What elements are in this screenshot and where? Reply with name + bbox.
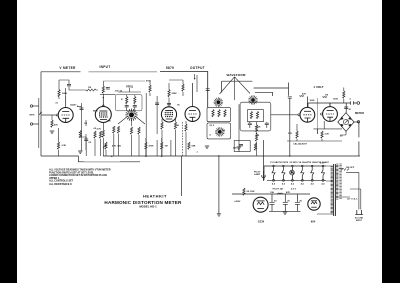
vertical wire x146: [145, 93, 147, 156]
svg-text:.1: .1: [196, 152, 199, 154]
power bus wire: [232, 193, 310, 195]
svg-text:68K: 68K: [192, 146, 196, 148]
svg-text:R: R: [121, 99, 123, 101]
junction dot bus d: [218, 155, 219, 156]
svg-text:50K: 50K: [256, 135, 260, 137]
svg-text:1M: 1M: [84, 123, 87, 125]
S4 fan wires: [118, 117, 145, 126]
svg-text:METER: METER: [355, 111, 364, 115]
svg-text:ON-OFF: ON-OFF: [346, 167, 355, 169]
dashed vertical x182.7: [182, 122, 184, 156]
switch box 3 outer: [240, 102, 271, 131]
wire V1 grid: [42, 114, 57, 116]
wire bus res: [106, 138, 162, 156]
heater labels: [270, 161, 330, 164]
capacitor C-coupling: [288, 97, 292, 98]
svg-text:1M: 1M: [165, 146, 168, 148]
bus step right tail: [84, 161, 120, 163]
resistors under S4 d: [138, 127, 140, 134]
resistor bus 4: [188, 142, 190, 149]
resistor bus 1: [105, 142, 107, 149]
svg-text:4-5: 4-5: [291, 183, 295, 186]
svg-text:OUTPUT: OUTPUT: [190, 66, 205, 70]
wien RC pair 2 resistor: [134, 97, 136, 104]
wire cath V5 V6: [287, 124, 342, 141]
cap feedback: [80, 108, 84, 109]
vertical wire x197: [196, 75, 198, 92]
wire V3 cath: [161, 119, 163, 156]
wire meter series resistor: [343, 88, 345, 104]
meter terminal 2: [357, 121, 359, 123]
wire attenuator chain: [250, 122, 267, 156]
cap bridge top: [344, 107, 348, 108]
svg-text:5879: 5879: [166, 66, 174, 70]
filter choke: [277, 193, 282, 194]
svg-text:INPUT: INPUT: [30, 115, 36, 117]
svg-text:WAVEFORM: WAVEFORM: [226, 73, 245, 77]
grid resistor V6: [323, 96, 327, 99]
pilot lamp symbol left: [262, 171, 266, 180]
meter movement circle: [343, 119, 348, 124]
svg-text:4-5: 4-5: [301, 183, 305, 186]
svg-text:S2: S2: [223, 130, 226, 132]
svg-text:PILOT #47: PILOT #47: [273, 187, 284, 190]
svg-text:1K: 1K: [177, 105, 180, 107]
tube V4 12AU7: [185, 83, 200, 122]
attenuator chain below 2: [255, 134, 257, 141]
cap at x157: [155, 103, 159, 104]
rotary switch S4 frequency: [125, 109, 137, 121]
transformer left winding: [331, 167, 333, 214]
wire switch lower: [255, 92, 273, 96]
wire V2 cath: [102, 138, 104, 156]
ground feedback: [78, 151, 82, 153]
power ground rail: [269, 210, 301, 212]
svg-text:INPUT: INPUT: [356, 220, 363, 222]
wien RC pair 1 cap: [125, 106, 129, 107]
cathode resistor V1b: [57, 142, 59, 149]
plate resistor V2: [102, 86, 104, 93]
wire waveform fan: [220, 77, 251, 100]
meter series resistor: [343, 91, 345, 98]
cathode resistor V1a: [51, 120, 53, 127]
pilot lamp cross: [290, 171, 293, 174]
wire waveform bus: [222, 81, 253, 92]
resistor bus 2: [145, 142, 147, 149]
resistor feedback 2: [94, 131, 96, 138]
heater rail bottom: [267, 179, 326, 181]
svg-text:5879: 5879: [93, 111, 98, 113]
main bottom bus: [41, 155, 360, 157]
plate resistor V4: [182, 84, 184, 91]
heater tap circles: [273, 165, 324, 167]
ground switch area: [205, 146, 209, 148]
grid terminal V1: [56, 114, 58, 116]
tube V6 12AU7: [323, 103, 338, 121]
wire feedback cluster: [86, 120, 101, 156]
svg-text:27K: 27K: [288, 133, 292, 135]
ground V1: [50, 131, 54, 133]
svg-text:V2 5879: V2 5879: [280, 162, 289, 164]
attenuator ladder a: [250, 111, 252, 118]
series cap on output drop: [206, 89, 210, 91]
cathode resistor V4: [185, 124, 187, 131]
wire V4 cath: [185, 121, 187, 156]
output terminal: [357, 102, 360, 105]
vertical wire x170.9: [170, 140, 172, 156]
AC vertical wires: [346, 172, 361, 209]
filter cap 3: [295, 194, 300, 211]
svg-text:600: 600: [233, 148, 237, 150]
svg-text:220K: 220K: [172, 93, 178, 95]
input attenuator pot: [39, 98, 42, 148]
tube V8 6X4: [308, 198, 320, 210]
vertical wire x157: [156, 96, 158, 156]
vertical wire x239: [238, 104, 240, 152]
transformer core: [334, 164, 336, 216]
grid resistor V5 horizontal: [300, 95, 304, 98]
svg-text:GZ34: GZ34: [258, 220, 265, 224]
svg-text:6.3 V: 6.3 V: [291, 188, 297, 190]
wire top output: [160, 72, 208, 108]
pot arrow bus: [103, 145, 106, 148]
switch box 1: [207, 107, 231, 121]
svg-text:220K: 220K: [62, 93, 68, 95]
heater rail left vert: [264, 166, 268, 180]
svg-text:4-5: 4-5: [311, 183, 315, 186]
dropping resistor power: [243, 188, 245, 195]
grid arrow V4: [194, 74, 195, 79]
input terminal 2: [30, 123, 32, 125]
heater pin circles: [272, 179, 324, 181]
svg-text:20: 20: [299, 201, 302, 203]
svg-text:12AX7: 12AX7: [70, 104, 77, 107]
V5 V6 bottom wire: [313, 121, 342, 134]
cathode resistor V3: [161, 122, 163, 129]
svg-text:470K: 470K: [149, 145, 154, 148]
svg-text:FREQ: FREQ: [126, 86, 133, 89]
feedback pot cluster: [77, 103, 82, 151]
wire V2 bottom: [102, 123, 104, 131]
section rule under INPUT: [89, 71, 158, 73]
resistors in box1 b: [218, 110, 220, 117]
junction dot bus a: [111, 156, 112, 157]
wire cap feedback 2: [80, 137, 86, 156]
cathode resistor V5: [296, 131, 298, 138]
switch box 2: [207, 123, 231, 139]
wire top feedback: [41, 72, 81, 156]
svg-text:20: 20: [274, 201, 277, 203]
resistors under S4 c: [130, 127, 132, 134]
pilot lamp: [290, 170, 295, 175]
junction dot bus e: [289, 155, 290, 156]
svg-text:ALL RESISTANCE K: ALL RESISTANCE K: [49, 183, 72, 186]
resistors in box1 a: [212, 110, 214, 117]
svg-text:20: 20: [349, 109, 352, 111]
svg-text:1K: 1K: [177, 125, 180, 127]
bridge diode blobs: [340, 117, 351, 128]
coupling cap V1-V2: [67, 85, 71, 86]
junction dot bus b: [145, 156, 146, 157]
wire under S4: [114, 134, 139, 156]
left black bar: [0, 0, 17, 283]
heater pin numbers: [272, 183, 325, 186]
wire bridge right down: [354, 122, 359, 156]
tube V7 rectifier GZ34: [253, 197, 268, 212]
cap below inner box left: [248, 123, 252, 124]
rotary switch S3: [248, 95, 258, 105]
svg-text:47K: 47K: [302, 93, 306, 96]
tube V2 5879: [95, 98, 111, 123]
svg-text:1M: 1M: [88, 87, 91, 89]
svg-text:10H: 10H: [270, 192, 274, 194]
grid RC V3: [149, 85, 151, 92]
cathode resistor V2: [102, 130, 104, 137]
tube V3 5879: [161, 104, 176, 123]
junction dots chain: [256, 133, 257, 134]
svg-text:10K: 10K: [107, 121, 111, 123]
screen cap V2: [106, 88, 110, 89]
wien bridge box: [115, 95, 142, 111]
fuse switch: [341, 169, 349, 171]
svg-text:.05: .05: [88, 142, 92, 144]
cap feedback 2: [84, 139, 88, 140]
wire grid RC V3: [149, 81, 151, 96]
heater filaments: [272, 167, 325, 180]
wire bridge bottom: [340, 131, 346, 135]
bracket label wien: [118, 88, 141, 92]
wire wien internals: [127, 95, 135, 111]
svg-text:47K .005: 47K .005: [112, 145, 122, 148]
svg-text:V METER: V METER: [59, 66, 76, 70]
wire cap to grid resistor: [69, 87, 86, 90]
resistors under S4 a: [113, 126, 115, 133]
power ground symbol: [283, 212, 287, 214]
svg-text:100K: 100K: [333, 99, 338, 101]
svg-text:.05 .5: .05 .5: [209, 125, 215, 127]
wire to bridge: [345, 103, 347, 113]
svg-text:50: 50: [340, 136, 343, 138]
svg-text:MODEL HD-1: MODEL HD-1: [139, 205, 157, 209]
wire V2 plate to wien box: [100, 93, 115, 95]
wire V3 plate: [168, 83, 170, 103]
AC plug: [355, 210, 363, 215]
B+ rule gray: [103, 80, 145, 82]
grid terminal V6: [321, 113, 323, 115]
svg-text:4-5: 4-5: [282, 183, 286, 186]
filter cap 2: [283, 194, 288, 211]
svg-text:.01: .01: [55, 103, 59, 105]
svg-text:20: 20: [287, 201, 290, 203]
transformer outer winding: [339, 164, 342, 199]
resistors under S4 b: [117, 126, 119, 133]
transformer right winding: [336, 164, 338, 199]
svg-text:.5: .5: [209, 135, 212, 137]
right black bar: [382, 0, 400, 283]
vertical wire between V5 V6: [316, 98, 318, 134]
vertical wire x263.5: [263, 140, 265, 181]
wire V1 plate top: [59, 80, 69, 99]
svg-text:V5 12AU7: V5 12AU7: [308, 161, 319, 164]
tube V1 12AX7: [58, 96, 73, 123]
cap in scope box: [239, 145, 243, 146]
wire V1 cathode: [52, 115, 59, 156]
svg-text:6X4: 6X4: [311, 220, 316, 224]
plate resistor V3: [168, 90, 170, 97]
input terminal 1: [30, 105, 32, 107]
wire terminal1: [33, 105, 39, 107]
transformer winding leads: [317, 166, 350, 214]
heater rail top: [268, 165, 327, 167]
svg-text:117 V. A.C.: 117 V. A.C.: [347, 198, 358, 201]
svg-text:4.7K: 4.7K: [97, 128, 102, 131]
meter needle: [345, 121, 348, 124]
wire cap down to bus: [289, 98, 291, 156]
grid resistor horizontal: [86, 89, 98, 91]
top cap V2: [102, 105, 104, 107]
top cap V3: [167, 103, 171, 104]
svg-text:.5: .5: [349, 99, 352, 101]
svg-text:4-5: 4-5: [321, 183, 325, 186]
resistor V3/V4 b: [174, 122, 176, 129]
svg-text:INPUT: INPUT: [99, 65, 110, 69]
long vertical below bus 2 with ground: [218, 156, 220, 214]
svg-text:100K: 100K: [310, 100, 315, 102]
junction dot V2 top: [103, 97, 104, 98]
svg-text:5K 10W: 5K 10W: [247, 191, 256, 193]
rotary switch S2: [215, 127, 225, 137]
attenuator chain below: [255, 125, 257, 132]
scope box: [234, 141, 250, 152]
svg-text:CAL ADJUST: CAL ADJUST: [293, 143, 307, 146]
resistor feedback 3: [99, 131, 101, 138]
long vertical below bus 1: [181, 156, 183, 196]
wire switch to cap: [254, 83, 289, 96]
bridge rectifier diamond: [338, 113, 354, 132]
resistors in box1 c: [224, 110, 226, 117]
svg-text:2.2K: 2.2K: [62, 145, 67, 147]
plate resistor V1: [58, 90, 60, 97]
wire plate resistor V4: [169, 80, 183, 96]
svg-text:4-5: 4-5: [272, 183, 276, 186]
switch box 3 inner: [247, 109, 263, 121]
tube V5 12AU7: [300, 97, 315, 123]
svg-text:1 VOLT: 1 VOLT: [313, 85, 323, 89]
junction dot bus c: [161, 156, 162, 157]
svg-text:47K: 47K: [286, 191, 290, 194]
wire V2 plate: [102, 81, 104, 98]
output coupling cap: [351, 101, 354, 105]
grid terminal V5: [298, 114, 300, 116]
wire terminal2: [33, 123, 39, 125]
bus lower step: [78, 156, 140, 162]
svg-text:+350V: +350V: [234, 201, 241, 203]
svg-text:LAMP: LAMP: [254, 173, 261, 176]
notes text block: [49, 169, 111, 186]
attenuator ladder b: [256, 111, 258, 118]
ground switch area 2: [237, 147, 241, 149]
svg-text:2.2K: 2.2K: [325, 134, 330, 136]
ground long vertical: [217, 214, 221, 216]
filter cap 1: [270, 194, 275, 211]
resistor feedback 1: [79, 131, 81, 138]
wire res b: [175, 119, 177, 156]
resistor bus 3: [161, 142, 163, 149]
rotary switch S1: [214, 97, 224, 107]
wire box3 to V5 grid: [271, 114, 298, 116]
svg-text:V3 5879: V3 5879: [289, 162, 298, 164]
svg-text:47K: 47K: [54, 124, 58, 127]
svg-text:250K: 250K: [256, 127, 261, 129]
cap below inner box right: [265, 123, 269, 124]
svg-text:HEATHKIT: HEATHKIT: [143, 194, 167, 199]
wire output top: [308, 103, 357, 107]
resistor right of scope box: [254, 143, 256, 150]
svg-text:6.3V: 6.3V: [320, 162, 325, 164]
svg-text:1M: 1M: [325, 95, 328, 97]
svg-text:470K: 470K: [146, 80, 151, 83]
wien RC pair 1 resistor: [126, 97, 128, 104]
cathode resistor V6: [321, 131, 323, 138]
wien RC pair 2 cap: [133, 106, 137, 107]
